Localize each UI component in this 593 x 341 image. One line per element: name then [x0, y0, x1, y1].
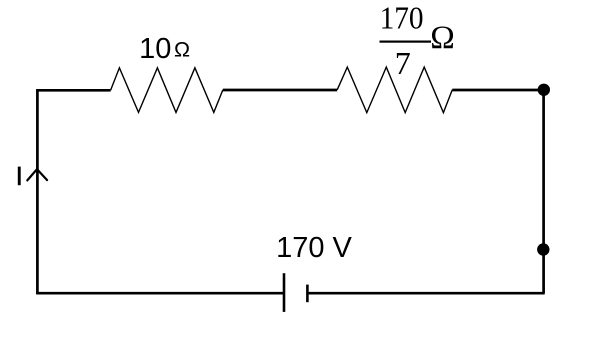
- label: current I: [18, 167, 21, 186]
- svg-text:170: 170: [380, 0, 424, 36]
- resistor R1 (10 ohm) zigzag: [111, 68, 223, 113]
- svg-text:Ω: Ω: [430, 20, 455, 56]
- wire: bottom rail, battery left plate to bottom-left corner: [36, 292, 284, 295]
- current arrow head (upward chevron on left wire): [27, 169, 47, 180]
- wire: R2 to top-right node: [452, 89, 543, 92]
- wire: left side vertical (bottom-left corner to top-left corner): [36, 89, 39, 294]
- label: fraction bar: [380, 41, 432, 43]
- wire: between R1 and R2: [223, 89, 337, 92]
- junction node (right side, middle): [537, 243, 549, 255]
- svg-text:Ω: Ω: [174, 37, 190, 61]
- svg-text:170 V: 170 V: [276, 232, 352, 264]
- svg-text:10: 10: [139, 33, 171, 65]
- wire: top rail, top-left corner to resistor R1: [36, 89, 110, 92]
- junction node (top-right corner): [538, 84, 550, 96]
- battery B1: long plate (left): [283, 273, 286, 312]
- svg-text:7: 7: [395, 45, 411, 81]
- wire: right side vertical: [542, 90, 545, 293]
- wire: bottom rail, bottom-right corner to battery right plate: [307, 292, 544, 295]
- battery B1: short plate (right): [306, 285, 309, 303]
- resistor R2 (170/7 ohm) zigzag: [337, 67, 452, 113]
